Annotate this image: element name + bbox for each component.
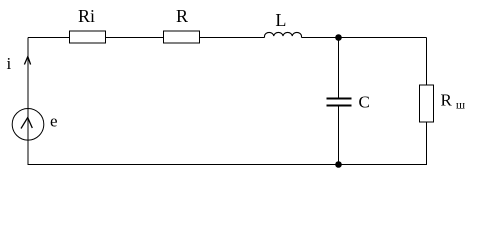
svg-text:R: R (441, 91, 453, 110)
svg-text:Ri: Ri (78, 6, 95, 26)
svg-text:R: R (176, 6, 188, 26)
svg-text:L: L (275, 10, 286, 30)
svg-text:i: i (7, 54, 12, 73)
svg-text:C: C (359, 93, 370, 112)
svg-text:e: e (50, 112, 58, 131)
svg-text:ш: ш (456, 98, 466, 112)
